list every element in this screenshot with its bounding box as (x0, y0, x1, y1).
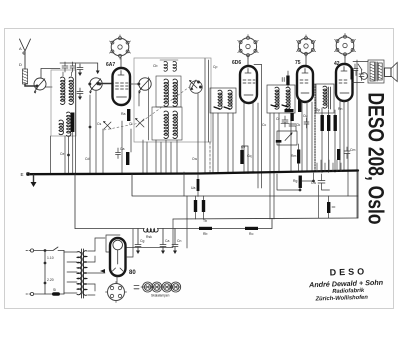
svg-text:Radiofabrik: Radiofabrik (332, 288, 365, 295)
wire trimmer bus to C2 with arrow (60, 63, 98, 71)
svg-text:Rsk: Rsk (146, 235, 152, 239)
transformer primary taps (64, 252, 77, 293)
AVC capacitor with chassis arrow (upper) (77, 64, 83, 76)
wire x318.5 to rail B (318, 185, 320, 218)
voltage selector vertical (44, 250, 46, 295)
svg-text:Cs: Cs (97, 122, 102, 126)
shield edge IFT3 (dashed) (314, 84, 316, 171)
IFT1 core marks (214, 107, 230, 109)
trimmer X right (gang) (135, 118, 144, 127)
svg-text:Si: Si (53, 288, 56, 292)
dashed gang coupling line (104, 85, 192, 130)
tuning capacitor C3 (osc) (138, 78, 152, 94)
electrolytic capacitor bars (321, 115, 324, 131)
wire C1 to band filter (46, 86, 53, 88)
wires secondary to rectifier (95, 238, 105, 291)
svg-text:Cd: Cd (85, 157, 89, 161)
svg-text:6D6: 6D6 (232, 60, 241, 66)
node at C2 grid (97, 82, 100, 85)
bar at V3 top area (290, 113, 293, 121)
svg-text:Ct: Ct (129, 122, 133, 126)
company block DESO (307, 266, 384, 303)
capacitor Ca near R3 (116, 148, 121, 159)
small caps in detector (282, 116, 309, 128)
power transformer primary (77, 252, 81, 295)
svg-text:Rg: Rg (293, 179, 297, 183)
svg-text:Rn: Rn (338, 107, 342, 111)
caps hanging: Ca2 (160, 229, 166, 255)
wire V2 plate to dropper (254, 64, 262, 66)
volume potentiometer (277, 131, 297, 145)
svg-text:Tb: Tb (203, 219, 207, 223)
svg-text:Rb: Rb (203, 232, 207, 236)
output transformer secondary (378, 63, 382, 80)
resistor bar below bus (detector load) (299, 176, 302, 189)
output transformer primary (hatched bar) (370, 62, 375, 81)
resistor Rm bar (297, 150, 300, 164)
trimmer caps above coil unit (62, 62, 75, 72)
output transformer core (376, 62, 377, 81)
svg-text:6A7: 6A7 (106, 62, 115, 68)
svg-text:1.10: 1.10 (47, 256, 54, 260)
IFT2 secondary winding (286, 87, 290, 109)
svg-text:DESO 208, Oslo: DESO 208, Oslo (364, 93, 389, 225)
svg-text:Cw: Cw (311, 181, 316, 185)
svg-text:Sp: Sp (316, 108, 320, 112)
wires IFT2 verticals (270, 113, 291, 219)
small parts right of V4 (352, 62, 368, 83)
filter choke (143, 229, 158, 233)
rail C (rectifier B+) (75, 219, 272, 229)
wires V3 pins down (302, 102, 312, 171)
IFT1 primary winding (218, 90, 222, 109)
coil L4b (173, 111, 177, 138)
tuning capacitor C1 (antenna) (34, 78, 46, 94)
wire socket S4 to V4 (344, 55, 346, 64)
trimmer pair in coil unit top (160, 60, 178, 71)
tube V4 (42) (336, 64, 353, 101)
wire anode loop (106, 235, 120, 252)
wires IFT1 to bus (213, 113, 233, 173)
IFT2 box (267, 85, 295, 113)
svg-text:Ca: Ca (165, 239, 169, 243)
detector resistor bar (horizontal) (285, 109, 294, 112)
caps hanging from rail C: Cg (135, 229, 141, 255)
rail A (132, 174, 358, 196)
svg-text:Ra: Ra (121, 112, 126, 116)
wire loop detector return (277, 173, 314, 190)
osc coil winding block 2 inner box (152, 107, 182, 140)
trimmer X left (gang) (103, 121, 111, 129)
svg-text:D: D (19, 62, 22, 67)
mains fuse (34, 292, 64, 296)
svg-text:75: 75 (295, 60, 301, 66)
IFT3 winding (323, 86, 327, 108)
dial lamp wire (141, 286, 180, 288)
caps hanging: Cn (172, 229, 178, 255)
earth terminal E (26, 172, 29, 175)
svg-text:Cq: Cq (247, 154, 252, 158)
wires: left coil unit to bus (51, 63, 91, 174)
tuning capacitor C4 (switch circle) (190, 81, 202, 93)
rail B (173, 218, 358, 219)
tuning capacitor C2 (RF) (89, 78, 103, 94)
left antenna coil unit box (51, 70, 76, 136)
power transformer secondary (83, 251, 87, 296)
tube V1 (6A7) (113, 68, 131, 105)
AVC capacitor with chassis arrow (lower) (77, 88, 83, 100)
wire V5 filament to rail C (117, 229, 133, 283)
mains switch (34, 247, 64, 251)
svg-text:80: 80 (129, 270, 136, 276)
capacitor Cm2 below bus (318, 174, 330, 190)
below bus: heater box vertical (74, 174, 76, 229)
dial lamps (143, 282, 181, 292)
svg-text:Ua: Ua (191, 186, 195, 190)
wires: V2 pins to bus (244, 65, 262, 189)
mains vertical to transformer (63, 251, 65, 295)
IFT2 primary winding (275, 87, 279, 109)
wire socket S2 to V2 grid cap (247, 55, 249, 66)
resistor bar RB2 on rail C (245, 227, 258, 230)
wire socket to grid cap of V1 (120, 58, 122, 68)
wires electrolytic pair (196, 196, 204, 219)
resistor bar RB1 on rail C (199, 227, 212, 230)
secondary taps (88, 251, 105, 295)
wire left box below bus (183, 172, 185, 196)
IFT1 box (210, 88, 236, 113)
tube V5 (80) (110, 238, 126, 276)
coil L3b (173, 79, 177, 106)
resistor R4 (bar) below V2 (240, 150, 243, 164)
wires: RF area verticals to bus (96, 91, 147, 174)
svg-text:Cv: Cv (241, 145, 245, 149)
capacitor Cm near V4 (344, 147, 350, 159)
wire through Rm (298, 144, 300, 171)
IFT3 core lines (329, 87, 331, 109)
rectifier socket S5 (106, 282, 127, 303)
tube socket S1 (110, 35, 131, 59)
svg-text:Ce: Ce (60, 152, 64, 156)
tube V2 (240, 66, 257, 103)
svg-text:Cc: Cc (262, 123, 266, 127)
svg-text:Cg: Cg (140, 239, 144, 243)
dial lamp AC marks (134, 286, 139, 289)
svg-text:2.20: 2.20 (47, 278, 54, 282)
band switch contact arrows (189, 80, 202, 90)
output transformer box (368, 60, 384, 83)
wire socket S3 to V3 (305, 54, 307, 66)
svg-text:Skalalampen: Skalalampen (151, 294, 170, 298)
anode resistor bar at V4 (351, 69, 354, 80)
antenna coupling coil (hatched) (23, 69, 28, 84)
resistor bar in lower box (327, 202, 330, 213)
antenna A (20, 39, 31, 69)
chassis bus (heavy) (28, 171, 358, 175)
svg-text:Cw: Cw (192, 157, 197, 161)
wires: osc coil unit verticals to bus (156, 59, 209, 174)
coil L3a (164, 79, 168, 106)
chassis arrow at secondary center (100, 269, 105, 273)
coil L4a (164, 111, 168, 138)
wire V1 anode to C3 (130, 83, 138, 85)
node: antenna junction (36, 85, 38, 87)
svg-text:Ck: Ck (296, 123, 300, 127)
wire: left trimmer drop (63, 72, 72, 76)
oscillator coil unit outer box (134, 58, 211, 142)
svg-text:Cb: Cb (153, 64, 158, 68)
wires V4 pins down (340, 60, 357, 218)
svg-text:Cm: Cm (350, 148, 356, 152)
coil L2a winding (59, 120, 63, 135)
vertical frame right x358 (357, 171, 359, 219)
svg-text:Cn: Cn (177, 239, 181, 243)
mains terminals (26, 249, 34, 296)
ground arrow symbol (31, 175, 37, 187)
power transformer core (82, 249, 84, 298)
resistor R3 (bar) below V1 (126, 152, 129, 165)
tube V3 (75) (297, 66, 313, 102)
small jack circle (361, 73, 368, 80)
wire inside osc box (148, 77, 150, 140)
wire C2 to 6A7 grid (thick) (98, 83, 113, 85)
tube socket S2 (238, 35, 259, 59)
resistor R2 below socket (bar) (127, 109, 130, 121)
svg-text:A: A (19, 46, 22, 51)
wire from bar (329, 196, 336, 218)
wires rails left ends down (127, 196, 188, 248)
resistor R1 (bar in coil unit) (71, 113, 74, 133)
tube socket S3 (296, 35, 315, 57)
IFT2 core marks (271, 105, 288, 107)
svg-text:Rm: Rm (291, 154, 296, 158)
loudspeaker (385, 63, 398, 82)
resistor bar below bus (screen feed) (197, 179, 200, 191)
IFT1 secondary winding (228, 90, 232, 109)
resistor R5 vertical bar (298, 100, 301, 112)
resistor R6 vertical bar (286, 76, 289, 86)
resistor R8 bar (337, 149, 340, 160)
wire through screen bar (197, 174, 199, 197)
tube socket S4 (335, 33, 356, 57)
electrolytic pair bars between rails (194, 200, 197, 212)
svg-text:DESO: DESO (329, 266, 367, 277)
cap plates horizontal (281, 124, 296, 131)
coil L1a winding (61, 77, 65, 104)
cap beside R6 (282, 78, 284, 82)
IFT3 box (316, 84, 334, 113)
wires electrolytics to bus (322, 108, 335, 173)
svg-text:Ro: Ro (249, 232, 253, 236)
wire antenna to tuning cap (25, 84, 37, 86)
wires at R6 (287, 71, 289, 88)
node dots on loop (299, 189, 301, 191)
wire loop at R4 (242, 146, 248, 174)
ticks above bus (wire ends) (317, 160, 341, 172)
coil L1b winding (69, 77, 73, 104)
coil L2b winding (67, 112, 71, 136)
wire C1 top to coil unit (41, 69, 60, 78)
svg-text:E: E (21, 172, 24, 177)
resistor bar at pot input (276, 140, 282, 143)
osc coil winding block 1 inner box (156, 76, 181, 107)
svg-text:Cp: Cp (213, 65, 217, 69)
shield dashed drop at x210 (209, 142, 211, 173)
